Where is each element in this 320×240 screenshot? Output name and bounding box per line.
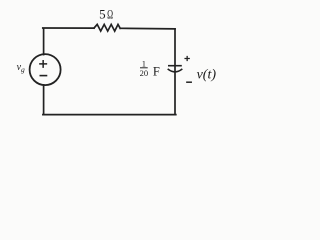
capacitor 1/20 F bottom curved plate [168,69,181,72]
svg-text:v(t): v(t) [197,68,217,83]
capacitor + polarity mark [185,57,189,61]
fraction bar of 1/20 [141,67,148,69]
svg-text:5: 5 [99,7,106,22]
voltage source vg circle [30,54,61,85]
svg-text:20: 20 [140,68,149,78]
svg-text:F: F [153,65,160,79]
svg-text:g: g [21,65,25,74]
svg-text:Ω: Ω [107,8,113,22]
resistor 5 ohm [94,24,120,31]
wire bottom horizontal [43,114,176,116]
voltage source - polarity mark [40,75,46,77]
wire right vertical bottom (capacitor to bottom-right corner) [174,72,176,114]
wire left vertical top (source to top-left corner) [43,29,45,55]
wire top horizontal left (corner to resistor) [43,27,94,29]
wire top horizontal right (resistor to top-right corner) [120,27,175,30]
wire left vertical bottom (bottom-left corner to source) [43,85,45,115]
wire right vertical top (corner to capacitor top plate) [174,29,176,72]
capacitor 1/20 F top plate [169,65,181,67]
voltage source + polarity mark [40,61,47,67]
capacitor - polarity mark [187,81,191,83]
